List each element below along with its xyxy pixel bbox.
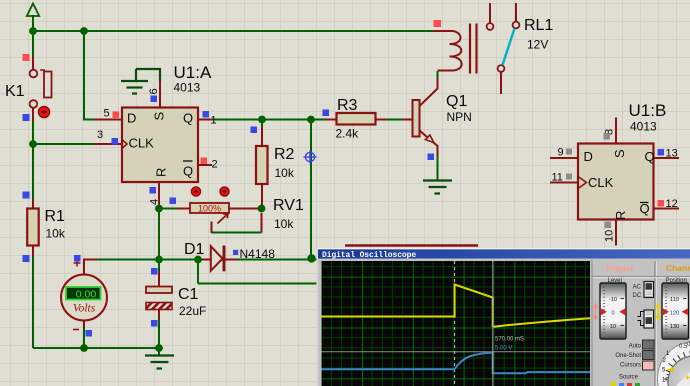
node D1 line tap [194, 256, 202, 264]
knob secondary pointer [686, 375, 690, 380]
svg-text:S: S [612, 149, 627, 158]
svg-text:4013: 4013 [174, 81, 201, 95]
origin marker blue crosshair [304, 151, 317, 164]
svg-text:R1: R1 [45, 208, 66, 225]
svg-text:5: 5 [104, 108, 110, 120]
pin stub relay contact 1 [489, 3, 491, 23]
marker blue R3 [323, 110, 330, 117]
svg-text:-10: -10 [609, 297, 617, 303]
panel groove [592, 276, 690, 278]
svg-text:Source: Source [619, 375, 639, 381]
U1:B pin letter Qbar [640, 201, 650, 216]
marker red K1 [23, 54, 30, 61]
transistor Q1 [413, 89, 438, 147]
relay contact pole 3 [498, 65, 505, 72]
pin stub RV1 right [229, 208, 262, 210]
pin stub RV1 wiper [211, 222, 213, 234]
svg-text:R: R [613, 211, 628, 220]
ground below Q1 [423, 181, 452, 194]
edge select icons [638, 312, 645, 326]
svg-text:Q1: Q1 [446, 93, 467, 110]
svg-text:S: S [152, 112, 167, 121]
svg-text:R: R [154, 168, 169, 177]
wire K1 top vertical [32, 31, 34, 58]
svg-text:2.4k: 2.4k [336, 127, 360, 141]
wire node to scope edge [311, 259, 319, 261]
pin stub voltmeter minus [83, 321, 85, 327]
svg-text:U1:B: U1:B [629, 101, 667, 120]
wire power stem [32, 15, 34, 31]
svg-text:5.00 V: 5.00 V [495, 346, 512, 352]
U1:A pin letter Qbar [183, 161, 193, 179]
svg-text:12: 12 [666, 198, 678, 210]
wire K1 to R1 vertical [32, 144, 34, 201]
svg-text:10: 10 [610, 324, 616, 330]
svg-text:2: 2 [212, 159, 218, 171]
flip-flop U1:A [122, 108, 198, 183]
marker blue voltmeter minus [86, 330, 93, 337]
node top-left [29, 27, 37, 35]
Auto button [643, 340, 655, 349]
wire C1 branch upper [158, 260, 160, 274]
source channel dots [611, 382, 640, 386]
RV1 wiper arrow [218, 214, 229, 224]
svg-text:C1: C1 [178, 286, 199, 303]
pin stub C1 top [158, 271, 160, 287]
wire bottom rail [33, 347, 159, 349]
pin stub R3 right [375, 119, 386, 121]
pin stub U1A pin1 [198, 119, 212, 121]
pin stub R2 top [261, 127, 263, 146]
svg-text:Volts: Volts [73, 303, 96, 315]
marker red pin2 [201, 158, 208, 165]
svg-text:Auto: Auto [629, 344, 642, 350]
wire RV1 wiper horizontal [212, 232, 262, 234]
pin stub D1 anode [200, 259, 211, 261]
marker blue voltmeter plus [74, 255, 81, 262]
wire D node vertical to U1A pin5 [84, 31, 96, 120]
marker blue pin1 [203, 111, 210, 118]
scope yellow trace [322, 285, 591, 328]
marker blue pin13 [658, 149, 665, 156]
marker squares blue [23, 96, 665, 337]
svg-text:Digital Oscilloscope: Digital Oscilloscope [322, 251, 416, 260]
node bottom rail C1 [155, 344, 163, 352]
node Q row R3 [307, 116, 315, 124]
U1:B pin stub R [615, 220, 617, 246]
svg-text:11: 11 [552, 172, 563, 184]
svg-text:4013: 4013 [630, 120, 657, 134]
svg-text:D: D [127, 111, 136, 126]
svg-text:N4148: N4148 [240, 247, 276, 261]
svg-text:4: 4 [149, 199, 161, 205]
scope blue trace [322, 353, 591, 374]
resistor R1 [27, 209, 39, 246]
marker red relay [434, 20, 442, 27]
marker blue pin4 [150, 187, 157, 194]
node R pin / RV1 [155, 205, 163, 213]
ground near U1:A [121, 69, 160, 94]
marker blue C1 top [151, 268, 158, 275]
node bottom rail voltmeter [80, 344, 88, 352]
edge toggle [644, 310, 654, 328]
scope cursor solid [492, 261, 494, 386]
pin stub U1A pin2 [198, 164, 212, 166]
marker squares red [23, 20, 665, 207]
wire voltmeter plus horizontal [95, 259, 311, 261]
switch K1 [30, 70, 52, 108]
marker gray pin11 [566, 174, 572, 180]
voltmeter plus sign [74, 260, 81, 267]
knob dial ticks [664, 351, 690, 380]
wire RV1 left link [159, 208, 179, 210]
capacitor C1 bottom plate [146, 303, 172, 310]
channel knob [668, 356, 690, 386]
node CLK tee [29, 140, 37, 148]
scope panel divider [654, 261, 656, 386]
marker blue R1 bottom [23, 255, 30, 262]
voltmeter body [61, 275, 107, 321]
svg-text:110: 110 [670, 297, 679, 303]
svg-text:One-Shot: One-Shot [615, 353, 641, 359]
pin stub relay contact 2 [515, 3, 517, 22]
marker gray pin10 [605, 222, 612, 229]
svg-text:Q: Q [183, 164, 193, 179]
wire CLK horizontal [33, 143, 97, 145]
One-Shot button [643, 351, 655, 360]
marker squares gray [566, 133, 611, 228]
node Q row R2 [258, 116, 266, 124]
node RV1 right / R2 [258, 205, 266, 213]
svg-text:Channel A: Channel A [666, 263, 690, 273]
pin stub R3 left [326, 119, 337, 121]
pin stubs (dark red) [33, 3, 516, 327]
svg-text:R2: R2 [274, 146, 295, 163]
pin stub U1A pin4 [158, 182, 160, 209]
channel red arrow right [682, 308, 688, 315]
pin stub Q1 base [403, 119, 413, 121]
marker gray pin8 [604, 133, 611, 140]
svg-text:Q: Q [640, 201, 650, 216]
pin stub relay contact 3 [500, 72, 502, 94]
wire Q1 emitter to ground [437, 154, 439, 180]
marker blue pin3 [112, 138, 119, 145]
U1:B pin stub S [615, 118, 617, 144]
svg-text:9: 9 [558, 147, 564, 159]
wire Q1 output row [210, 119, 327, 121]
svg-text:U1:A: U1:A [174, 63, 212, 82]
scope blue zero reference line [322, 351, 591, 353]
oscilloscope title bar [318, 250, 690, 259]
marker blue R1 top [23, 192, 30, 199]
trigger red arrow left [601, 308, 607, 315]
node D1 line / C1 [155, 256, 163, 264]
svg-text:0.00: 0.00 [76, 288, 97, 300]
switch K1 toggle button [38, 106, 49, 117]
pin stub R2 bottom [261, 184, 263, 209]
channel red arrow left [663, 308, 669, 315]
voltmeter display [66, 287, 101, 300]
svg-text:AC: AC [633, 285, 642, 291]
marker blue pin4 right [170, 198, 177, 205]
U1:A clock wedge [122, 140, 127, 149]
AC/DC toggle [644, 282, 654, 298]
node top rail / pin5 column [80, 27, 88, 35]
svg-text:100%: 100% [198, 204, 221, 214]
svg-text:10k: 10k [275, 166, 295, 180]
red wire segment above scope [345, 244, 478, 247]
resistor R2 [256, 146, 268, 184]
oscilloscope screen [322, 261, 591, 386]
pin stub U1A pin5 [95, 119, 122, 121]
svg-text:K1: K1 [5, 83, 25, 100]
potentiometer RV1 body [190, 203, 229, 213]
svg-text:12V: 12V [527, 38, 548, 52]
marker blue pin6 [151, 96, 158, 103]
ground below C1 [145, 356, 174, 369]
relay RL1 core [470, 24, 477, 74]
svg-text:D: D [584, 149, 593, 164]
svg-text:130: 130 [670, 324, 679, 330]
diode D1 [211, 246, 224, 272]
wire voltmeter minus [83, 325, 85, 348]
U1:B pin stub D [550, 157, 578, 159]
U1:B clock wedge [578, 177, 587, 189]
svg-text:22uF: 22uF [179, 304, 206, 318]
capacitor C1 top plate [146, 287, 172, 294]
wire R2 top link [261, 120, 263, 130]
U1:B pin stub Qbar [654, 208, 680, 210]
U1:B pin stub Q [654, 157, 680, 159]
pin stub RV1 left [177, 208, 190, 210]
pin stub Q1 emitter bottom [437, 145, 439, 156]
wire D1 tap horizontal to scope [198, 283, 319, 285]
svg-text:10: 10 [604, 230, 616, 242]
scope cursor dashed [454, 261, 456, 386]
pin stub U1A pin6 [159, 80, 161, 108]
marker gray pin9 [566, 149, 572, 155]
wire D1 tap vertical [197, 260, 199, 284]
relay RL1 coil [433, 31, 462, 71]
relay contact pole 2 [513, 22, 520, 29]
resistor R3 [337, 113, 376, 125]
pin stub R1 bottom [32, 245, 34, 256]
pin stub K1 bottom [32, 108, 34, 121]
svg-text:RL1: RL1 [524, 17, 553, 34]
wire R3 to Q1 base [384, 119, 405, 121]
svg-text:10k: 10k [46, 227, 66, 241]
svg-text:13: 13 [666, 148, 678, 160]
marker blue K1 bottom [23, 114, 30, 121]
Cursors button [643, 361, 655, 370]
svg-text:NPN: NPN [447, 110, 472, 124]
svg-text:CLK: CLK [588, 175, 614, 190]
svg-text:570.00 mS: 570.00 mS [495, 337, 524, 343]
svg-text:CLK: CLK [129, 136, 155, 151]
relay blade [503, 29, 515, 66]
svg-text:R3: R3 [337, 97, 358, 114]
pin stub D1 cathode [225, 259, 237, 261]
channel knob pointer [667, 367, 674, 373]
wire relay coil to Q1 collector [437, 71, 439, 80]
trigger level slider [600, 283, 626, 339]
pin stub R1 top [32, 199, 34, 209]
svg-text:120: 120 [670, 311, 679, 317]
svg-text:Cursors: Cursors [620, 363, 641, 369]
pin stub C1 bottom [158, 309, 160, 319]
trigger red arrow right [619, 308, 625, 315]
RV1 down button [220, 187, 229, 196]
marker blue D1 [233, 250, 238, 255]
pin stub voltmeter plus [84, 260, 97, 275]
wire R pin column [158, 209, 160, 260]
wire C1 bottom to ground [158, 317, 160, 355]
channel yellow double arrow [655, 303, 661, 321]
marker red pin5 [113, 112, 120, 119]
svg-text:3: 3 [97, 129, 103, 141]
svg-text:Q: Q [645, 149, 655, 164]
U1:B pin stub CLK [550, 182, 578, 184]
wire K1 bottom vertical [32, 119, 34, 144]
pin stub Q1 collector top [437, 78, 439, 89]
marker red pin12 [658, 200, 665, 207]
knob dial numbers [662, 342, 690, 384]
marker blue Q1 emitter [428, 154, 435, 161]
oscilloscope window [317, 248, 690, 386]
marker blue R2 top [251, 127, 258, 134]
pin stub K1 top [32, 56, 34, 69]
channel position slider [662, 283, 689, 339]
channel knob dial [658, 342, 690, 386]
svg-text:D1: D1 [184, 241, 205, 258]
wire junction column x311 [310, 120, 312, 260]
power arrow symbol [27, 4, 39, 17]
marker blue C1 bottom [151, 320, 158, 327]
RV1 up button [191, 187, 200, 196]
node D1 line / R3 column [307, 254, 315, 262]
svg-text:Trigger: Trigger [605, 263, 635, 273]
wire top rail horizontal [33, 30, 433, 32]
svg-text:1: 1 [211, 115, 217, 127]
trigger pink double arrow [593, 303, 599, 321]
wire RV1 wiper to right terminal [261, 213, 263, 233]
svg-text:Q: Q [183, 111, 193, 126]
svg-text:RV1: RV1 [273, 197, 304, 214]
svg-text:6: 6 [148, 88, 160, 94]
pin stub U1A clk [95, 143, 122, 145]
flip-flop U1:B [578, 144, 654, 220]
wire R1 to bottom rail [32, 254, 34, 348]
relay contact pole 1 [487, 23, 494, 30]
svg-text:10k: 10k [274, 217, 294, 231]
svg-text:DC: DC [633, 293, 642, 299]
svg-text:0: 0 [611, 311, 614, 317]
voltmeter minus sign [73, 329, 79, 331]
